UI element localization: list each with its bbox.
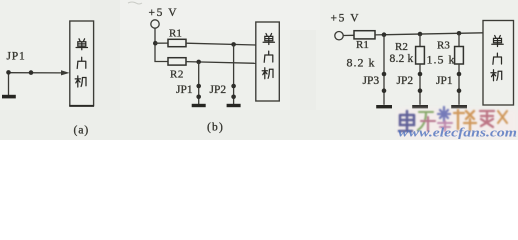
wire rail to R2 box (c) [419,34,421,47]
pin dots JP2 (b) [231,84,236,89]
wire JP2 drop (b) [233,44,235,104]
ground JP2 (b) [227,104,241,107]
ground JP2 (c) [412,105,428,108]
svg-text:www.elecfans.com: www.elecfans.com [398,126,517,140]
resistor R3 (c) [455,47,464,65]
node JP2 tee (b) [231,42,236,47]
ground JP1 (b) [192,104,206,107]
resistor R2 (b) [168,58,186,65]
node pin1 JP1 [6,70,11,75]
svg-text:R2: R2 [395,41,408,53]
pin dots JP3 [382,72,387,77]
MCU box U-c [483,21,514,106]
wire terminal to R1 (c) [343,34,354,36]
wire +5V rail (b) [155,28,168,61]
wire R1 to MCU [186,43,256,45]
resistor R1 (c) [354,31,375,39]
text 单片机 (a) [75,39,87,87]
arrowhead into MCU [61,70,70,75]
node R1 tee [153,41,158,46]
svg-text:JP1: JP1 [7,51,26,63]
svg-text:R2: R2 [170,69,184,81]
svg-text:+5 V: +5 V [149,7,179,19]
wire horizontal JP1 to MCU [9,72,63,74]
svg-text:JP1: JP1 [436,75,453,87]
wire JP1 drop (b) [198,62,200,104]
svg-text:JP1: JP1 [176,84,193,96]
wire rail to R1 [155,42,168,44]
svg-text:R1: R1 [169,28,182,40]
node JP3 tee [382,32,387,37]
ground JP1 (c) [451,105,467,108]
wire rail to R3 box (c) [458,33,460,46]
faint top smudge [128,2,142,4]
terminal +5V (b) [151,20,159,28]
pin dots JP1 (c) [457,72,462,77]
svg-text:(a): (a) [74,125,90,137]
wire rail R1 to MCU (c) [375,33,483,35]
svg-text:JP2: JP2 [210,84,227,96]
wire vertical to ground [8,73,10,96]
svg-text:R3: R3 [437,40,450,52]
text 单片机 (b) [262,34,274,79]
MCU box U-a [70,21,94,106]
wire R2 to JP2 [419,64,421,105]
svg-text:8.2 k: 8.2 k [347,56,376,70]
ground (a) [2,95,16,99]
text 单片机 (c) [491,36,503,81]
svg-text:8.2 k: 8.2 k [390,53,414,65]
node pin2 JP1 [29,70,34,75]
wire JP3 drop [383,35,385,105]
resistor R2 (c) [416,47,425,65]
svg-text:+5 V: +5 V [331,13,361,25]
pin dots JP1 (b) [196,84,201,89]
terminal +5V (c) [335,32,343,40]
node R3 tee (c) [457,31,462,36]
MCU box U-b [256,22,279,101]
paper background mottling [0,0,518,140]
svg-text:(b): (b) [207,122,224,134]
node JP1 tee (b) [196,60,201,65]
svg-text:JP3: JP3 [363,75,380,87]
svg-text:JP2: JP2 [397,75,414,87]
svg-text:R1: R1 [356,39,369,51]
node R2 tee (c) [418,32,423,37]
resistor R1 (b) [168,39,186,46]
ground JP3 [376,105,392,108]
svg-text:1.5 k: 1.5 k [427,53,456,67]
wire R3 to JP1 [458,64,460,105]
wire R2 to MCU [186,62,256,64]
pin dots JP2 (c) [418,72,423,77]
